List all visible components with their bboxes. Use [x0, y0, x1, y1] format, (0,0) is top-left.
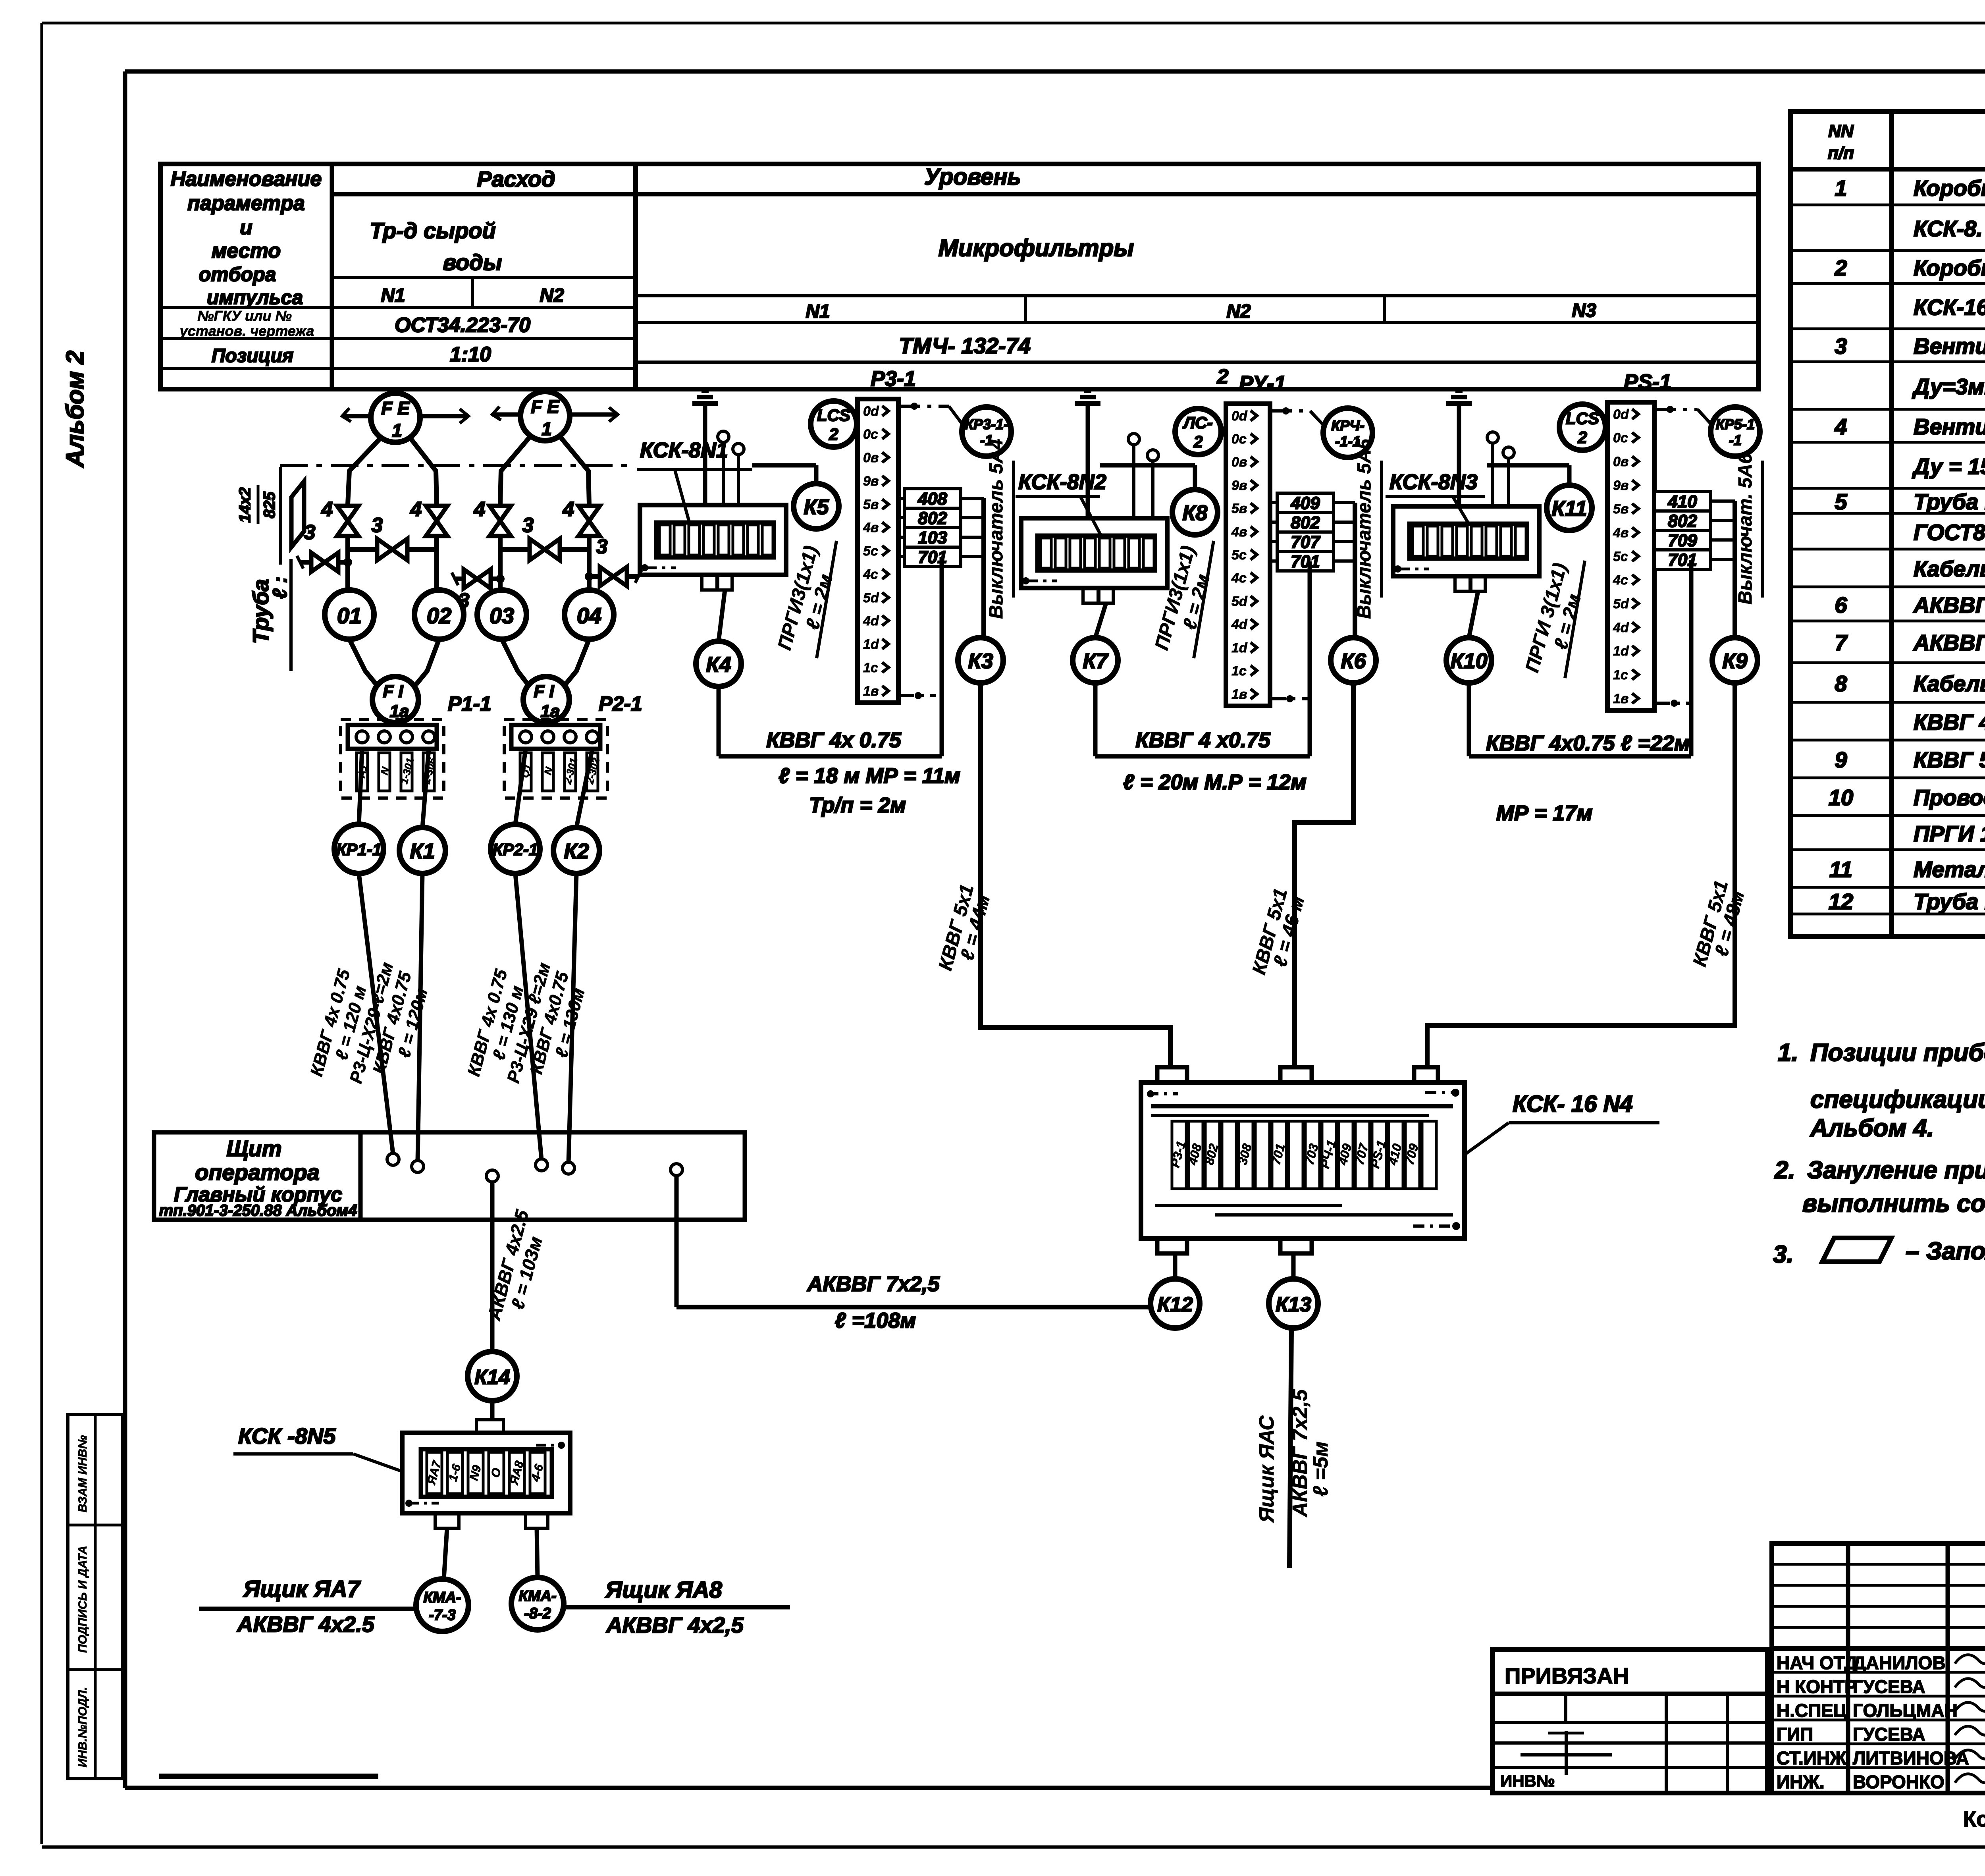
- svg-text:5d: 5d: [863, 590, 879, 605]
- svg-text:2: 2: [1193, 432, 1203, 451]
- vertical album label: Альбом 2: [62, 351, 89, 468]
- svg-text:Кабель контрольный ГОСТ1508-78: Кабель контрольный ГОСТ1508-78Е: [1914, 556, 1985, 581]
- junction box KSK-8 N3: [1393, 506, 1539, 591]
- svg-text:К1: К1: [410, 839, 435, 863]
- circle К9: [1712, 638, 1758, 683]
- svg-text:ИНЖ.: ИНЖ.: [1777, 1772, 1825, 1792]
- svg-text:Коробка соединительная: Коробка соединительная: [1914, 255, 1985, 280]
- svg-text:1: 1: [392, 420, 402, 441]
- room boundary dash-dot line: [280, 464, 635, 467]
- svg-text:и: и: [240, 216, 252, 239]
- left stamp column (inv/podpis/vzam): [68, 1415, 123, 1779]
- svg-text:АКВВГ 4х2.5: АКВВГ 4х2.5: [236, 1612, 375, 1637]
- relay circle КР5-1-1: [1711, 407, 1760, 456]
- notes text: [1773, 1039, 1985, 1268]
- wire to К11: [1487, 465, 1569, 485]
- svg-text:4d: 4d: [1613, 620, 1629, 635]
- svg-text:Вентиль запорный муфтовый: Вентиль запорный муфтовый: [1914, 334, 1985, 359]
- impulse pipes from FE2: [500, 437, 589, 504]
- specification table frame: [1790, 112, 1985, 937]
- svg-text:LCS: LCS: [817, 406, 850, 424]
- svg-text:ГОСТ8734-75 /ГОСТ 8733-74: ГОСТ8734-75 /ГОСТ 8733-74: [1914, 520, 1985, 545]
- kopiroval line: [1963, 1806, 1985, 1831]
- svg-text:АКВВГ 7х2,5: АКВВГ 7х2,5: [806, 1272, 940, 1296]
- svg-text:К8: К8: [1182, 501, 1207, 525]
- circle KMA-7-3: [416, 1579, 468, 1631]
- cable gland pins unit 3: [1487, 432, 1514, 506]
- svg-text:АКВВГ 7х2,5: АКВВГ 7х2,5: [1289, 1389, 1312, 1517]
- pipe size fraction 14х2/825: [236, 485, 278, 524]
- svg-text:Расход: Расход: [477, 166, 555, 191]
- pipe spec parallelogram: [291, 481, 304, 547]
- junction box KSK-8 N1: [640, 505, 786, 590]
- circle К5: [794, 484, 839, 529]
- svg-text:ГИП: ГИП: [1777, 1724, 1813, 1745]
- svg-text:01: 01: [337, 603, 362, 628]
- specification table rows text: [1829, 175, 1985, 914]
- svg-text:Альбом 4.: Альбом 4.: [1810, 1114, 1934, 1142]
- valve 4 on pipe 1: [321, 498, 358, 536]
- svg-text:Ящик ЯА7: Ящик ЯА7: [243, 1576, 361, 1602]
- svg-text:0в: 0в: [863, 450, 879, 465]
- svg-text:1d: 1d: [1613, 644, 1629, 659]
- truba label: [248, 467, 291, 671]
- svg-text:ВОРОНКО: ВОРОНКО: [1853, 1772, 1945, 1792]
- svg-text:Провод гибкий с медной жилой: Провод гибкий с медной жилой: [1914, 785, 1985, 810]
- relay label Р3-1: [871, 367, 916, 391]
- local switch circle ЛС- unit 2: [1175, 409, 1221, 455]
- svg-text:802: 802: [1668, 511, 1697, 531]
- bottom dash-dot unit 1: [898, 692, 936, 699]
- svg-text:03: 03: [490, 603, 514, 628]
- svg-text:F E: F E: [531, 396, 560, 417]
- svg-text:9в: 9в: [863, 474, 879, 489]
- title block frame: [1772, 1544, 1985, 1793]
- svg-text:Ду = 15мм, 15ч8П2: Ду = 15мм, 15ч8П2: [1912, 454, 1985, 479]
- local switch circle LCS unit 1: [811, 401, 857, 447]
- label KSK-16 N4: [1466, 1091, 1659, 1154]
- svg-text:К6: К6: [1341, 649, 1366, 673]
- instrument circle 01: [325, 536, 374, 639]
- svg-text:0d: 0d: [1613, 407, 1629, 422]
- label KSK-8 N3: [1386, 470, 1485, 524]
- wire to К8: [1100, 465, 1195, 490]
- svg-text:1.: 1.: [1778, 1039, 1798, 1066]
- svg-text:КСК-8N3: КСК-8N3: [1389, 470, 1478, 494]
- dash-dot wire relay to KR unit 3: [1654, 406, 1711, 424]
- bus to К9: [1733, 501, 1737, 638]
- svg-text:ℓ :: ℓ :: [269, 576, 291, 599]
- svg-text:К3: К3: [968, 649, 993, 673]
- privyazan table: [1492, 1650, 1767, 1793]
- wire K13 down to yashik YAS: [1255, 1328, 1332, 1568]
- svg-text:1:10: 1:10: [450, 343, 491, 366]
- svg-text:СТ.ИНЖ: СТ.ИНЖ: [1777, 1748, 1846, 1768]
- yashik YA8 label: [564, 1577, 790, 1637]
- svg-text:5c: 5c: [1231, 548, 1247, 563]
- svg-text:К13: К13: [1276, 1293, 1311, 1316]
- circle К1: [399, 827, 445, 873]
- svg-text:ПОДПИСЬ И ДАТА: ПОДПИСЬ И ДАТА: [76, 1546, 89, 1653]
- circle КР1-1: [334, 824, 384, 873]
- panel terminals: [387, 1153, 682, 1182]
- svg-text:4: 4: [563, 498, 574, 521]
- svg-text:п/п: п/п: [1828, 143, 1854, 163]
- svg-text:ИНВ.№ПОДЛ.: ИНВ.№ПОДЛ.: [76, 1687, 89, 1768]
- svg-text:2: 2: [1834, 255, 1847, 280]
- svg-text:КВВГ 4х0.75 ℓ =22м: КВВГ 4х0.75 ℓ =22м: [1486, 731, 1690, 755]
- svg-text:КСК-8N1: КСК-8N1: [640, 438, 728, 462]
- svg-text:АКВВГ 4х2,5: АКВВГ 4х2,5: [605, 1612, 744, 1637]
- svg-text:0в: 0в: [1231, 455, 1247, 470]
- svg-text:1: 1: [1835, 175, 1847, 201]
- svg-text:ГУСЕВА: ГУСЕВА: [1853, 1676, 1925, 1697]
- svg-text:4: 4: [321, 498, 333, 521]
- svg-text:3: 3: [522, 514, 534, 537]
- svg-text:КВВГ 4х0.75 кв.мм: КВВГ 4х0.75 кв.мм: [1914, 710, 1985, 735]
- switch label unit 3: [1735, 453, 1763, 604]
- svg-text:КР5-1: КР5-1: [1716, 416, 1755, 432]
- svg-text:2: 2: [1577, 428, 1587, 447]
- label KSK-8 N1: [637, 438, 752, 523]
- wire number cells unit 2: [1270, 493, 1355, 571]
- svg-text:Вентиль Запорный муфтовый: Вентиль Запорный муфтовый: [1914, 414, 1985, 439]
- cable gland pins unit 1: [718, 431, 744, 505]
- svg-text:ГУСЕВА: ГУСЕВА: [1853, 1724, 1925, 1745]
- cable gland pins unit 2: [1128, 434, 1158, 518]
- svg-text:Труба водогазопроводная: Труба водогазопроводная: [1914, 489, 1985, 514]
- svg-text:установ. чертежа: установ. чертежа: [179, 323, 314, 339]
- circle K13: [1269, 1253, 1318, 1328]
- ground symbol unit 1: [692, 391, 718, 505]
- svg-text:КСК-8N2: КСК-8N2: [1018, 470, 1106, 494]
- svg-text:Н.СПЕЦ: Н.СПЕЦ: [1777, 1700, 1847, 1721]
- terminal strip P2-1: [504, 719, 607, 798]
- riser into box middle: [1292, 823, 1297, 1067]
- svg-text:Выключат. 5А6: Выключат. 5А6: [1735, 453, 1756, 604]
- cable route К7 to relay unit 2: [1095, 561, 1310, 756]
- svg-text:Р3-1: Р3-1: [871, 367, 916, 391]
- svg-text:– Заполняется при привязке: – Заполняется при привязке проекта: [1906, 1238, 1985, 1265]
- svg-text:ОСТ34.223-70: ОСТ34.223-70: [395, 314, 530, 337]
- svg-text:К7: К7: [1083, 649, 1109, 673]
- svg-text:4в: 4в: [863, 520, 879, 535]
- dash-dot wire relay to KR unit 1: [898, 403, 962, 424]
- svg-text:Ящик ЯА8: Ящик ЯА8: [605, 1577, 723, 1603]
- svg-text:N1: N1: [806, 301, 830, 322]
- svg-text:1в: 1в: [1231, 687, 1247, 702]
- local switch circle LCS unit 3: [1559, 404, 1605, 450]
- svg-text:-1: -1: [1729, 432, 1742, 448]
- svg-text:№ГКУ или №: №ГКУ или №: [197, 308, 292, 324]
- svg-text:Выключатель 5А4: Выключатель 5А4: [986, 439, 1007, 619]
- flow element FE2: [492, 391, 618, 441]
- wire number cells unit 3: [1654, 492, 1735, 570]
- svg-text:707: 707: [1291, 532, 1321, 552]
- svg-text:Альбом 2: Альбом 2: [62, 351, 89, 468]
- svg-text:Щит: Щит: [226, 1136, 281, 1161]
- svg-text:КСК-16. ТУ36. 1753: КСК-16. ТУ36. 1753: [1914, 295, 1985, 320]
- circle К3: [958, 638, 1003, 683]
- svg-text:4d: 4d: [863, 613, 879, 629]
- svg-text:Н КОНТР: Н КОНТР: [1777, 1676, 1857, 1697]
- svg-text:0c: 0c: [1231, 432, 1247, 447]
- svg-text:выполнить согласно ПУЗ-85р: выполнить согласно ПУЗ-85р 1-7- 4Б.: [1802, 1190, 1985, 1217]
- svg-text:КСК-8. ТУ36. 1753: КСК-8. ТУ36. 1753: [1914, 216, 1985, 241]
- bottom dash-dot unit 2: [1270, 695, 1308, 702]
- circle К4: [696, 590, 741, 686]
- svg-text:КВВГ 4 х0.75: КВВГ 4 х0.75: [1135, 728, 1270, 752]
- parameter header table: [160, 164, 1758, 389]
- circle KMA-8-2: [511, 1577, 564, 1630]
- svg-text:К14: К14: [474, 1366, 510, 1389]
- svg-text:КСК -8N5: КСК -8N5: [238, 1423, 336, 1448]
- svg-text:КМА-: КМА-: [518, 1588, 556, 1604]
- long cable К9 to KSK-16: [1427, 685, 1735, 1068]
- circle K12: [1151, 1253, 1200, 1328]
- svg-text:ТМЧ- 132-74: ТМЧ- 132-74: [899, 333, 1031, 358]
- PRGI3 label unit 3: [1522, 561, 1585, 678]
- instrument circle 03: [477, 536, 526, 639]
- switch label unit 2: [1354, 438, 1382, 619]
- circle К10: [1446, 591, 1492, 683]
- svg-text:К4: К4: [706, 653, 731, 677]
- relay circle КРЧ--1-1: [1323, 408, 1372, 457]
- stub FI1 to strip: [393, 723, 398, 725]
- svg-text:02: 02: [427, 603, 451, 628]
- valve 4 on pipe 4: [563, 498, 600, 536]
- svg-text:F I: F I: [383, 682, 403, 701]
- svg-text:4: 4: [1834, 414, 1847, 439]
- junction box KSK-8 N2: [1021, 518, 1167, 603]
- svg-text:ГОЛЬЦМАН: ГОЛЬЦМАН: [1853, 1700, 1958, 1721]
- svg-text:1c: 1c: [1231, 663, 1247, 679]
- flow indicator FI2: [502, 639, 642, 723]
- svg-text:802: 802: [918, 509, 947, 528]
- circle К11: [1547, 485, 1592, 530]
- circle К6: [1331, 638, 1376, 683]
- svg-text:-7-3: -7-3: [429, 1607, 456, 1623]
- svg-text:КСК- 16 N4: КСК- 16 N4: [1513, 1091, 1633, 1117]
- switch label unit 1: [986, 439, 1014, 619]
- svg-text:3.: 3.: [1773, 1241, 1794, 1268]
- svg-text:1в: 1в: [863, 684, 879, 699]
- relay label РУ-1: [1239, 372, 1286, 395]
- svg-text:1c: 1c: [863, 660, 878, 675]
- wire to К5: [752, 465, 816, 484]
- svg-text:Р1-1: Р1-1: [448, 692, 491, 715]
- riser into box from left bus: [1168, 1028, 1173, 1067]
- svg-text:-8-2: -8-2: [524, 1605, 551, 1622]
- cable labels group 2: [464, 961, 589, 1085]
- svg-text:3: 3: [372, 514, 383, 537]
- svg-text:КРЧ-: КРЧ-: [1331, 417, 1364, 434]
- long cable К3 to KSK-16: [981, 683, 1170, 1068]
- svg-text:Ящик ЯАС: Ящик ЯАС: [1255, 1415, 1278, 1523]
- svg-text:N3: N3: [1572, 300, 1596, 321]
- svg-text:Труба полиэтиленовая 40х3: Труба полиэтиленовая 40х3: [1914, 889, 1985, 914]
- bus to К3: [981, 498, 986, 638]
- ground symbol unit 2: [1075, 391, 1100, 518]
- svg-text:Позиция: Позиция: [212, 345, 293, 366]
- svg-text:Кабель контрольный с медной жи: Кабель контрольный с медной жилой: [1914, 671, 1985, 696]
- svg-text:N1: N1: [381, 285, 405, 306]
- svg-text:ДАНИЛОВ: ДАНИЛОВ: [1853, 1652, 1946, 1673]
- svg-text:F E: F E: [381, 398, 410, 418]
- cable label KVVG 5x1 unit 1: [935, 882, 994, 973]
- svg-text:импульса: импульса: [207, 286, 303, 308]
- svg-text:тп.901-3-250.88 Альбом4: тп.901-3-250.88 Альбом4: [159, 1202, 357, 1219]
- svg-text:НАЧ ОТД: НАЧ ОТД: [1777, 1652, 1858, 1673]
- flow element FE1: [342, 393, 468, 442]
- svg-text:04: 04: [577, 603, 601, 628]
- svg-text:1d: 1d: [863, 637, 879, 652]
- cable route К10 to relay unit 3: [1469, 560, 1691, 756]
- svg-text:АКВВГ 7х2.5 кв. мм: АКВВГ 7х2.5 кв. мм: [1913, 630, 1985, 655]
- svg-text:9в: 9в: [1231, 478, 1247, 493]
- circle КР2-1: [491, 824, 540, 873]
- circle К7: [1073, 603, 1118, 683]
- valve 4 on pipe 3: [474, 498, 511, 536]
- svg-text:NN: NN: [1828, 121, 1854, 141]
- svg-text:К11: К11: [1551, 497, 1587, 521]
- label KSK-8 N5: [233, 1423, 402, 1471]
- svg-text:отбора: отбора: [199, 263, 276, 285]
- wire K14 to KSK-8 N5: [490, 1401, 495, 1420]
- svg-text:5в: 5в: [1231, 501, 1247, 516]
- svg-text:4d: 4d: [1231, 617, 1248, 632]
- svg-text:4: 4: [474, 498, 486, 521]
- svg-text:Уровень: Уровень: [924, 164, 1021, 190]
- title block signature rows: [1777, 1652, 1985, 1792]
- svg-text:Позиции приборов соответству: Позиции приборов соответствуют: [1810, 1039, 1985, 1066]
- cable label KVVG 5x1 unit 2: [1249, 886, 1309, 977]
- svg-text:4c: 4c: [863, 567, 878, 582]
- wire K14 drop: [483, 1182, 546, 1352]
- svg-text:К9: К9: [1722, 649, 1747, 673]
- svg-text:К12: К12: [1157, 1293, 1193, 1316]
- right line with valve 3: [585, 535, 642, 586]
- svg-text:РS-1: РS-1: [1624, 370, 1671, 394]
- svg-text:2: 2: [829, 425, 838, 443]
- svg-text:1c: 1c: [1613, 667, 1628, 683]
- svg-text:825: 825: [261, 492, 278, 518]
- wire number cells unit 1: [898, 489, 984, 567]
- svg-text:N2: N2: [540, 285, 564, 306]
- svg-text:1d: 1d: [1231, 640, 1248, 656]
- svg-text:5d: 5d: [1613, 596, 1629, 611]
- wires to KMA circles: [444, 1528, 538, 1579]
- svg-text:4в: 4в: [1613, 525, 1628, 540]
- svg-text:9: 9: [1835, 747, 1847, 772]
- svg-text:параметра: параметра: [187, 192, 305, 215]
- svg-text:воды: воды: [443, 250, 502, 275]
- specification table header: [1828, 121, 1985, 163]
- svg-text:Микрофильтры: Микрофильтры: [939, 235, 1134, 261]
- svg-text:ℓ =108м: ℓ =108м: [835, 1309, 916, 1332]
- svg-text:0c: 0c: [1613, 430, 1628, 445]
- relay box РS-1: [1607, 402, 1654, 710]
- mid line with valve 3: [452, 569, 505, 612]
- svg-text:5: 5: [1835, 489, 1847, 514]
- bottom-left scan bar: [159, 1774, 378, 1779]
- svg-text:ЛИТВИНОВА: ЛИТВИНОВА: [1853, 1748, 1969, 1768]
- svg-text:10: 10: [1829, 785, 1853, 810]
- svg-text:оператора: оператора: [195, 1160, 320, 1185]
- svg-text:410: 410: [1667, 492, 1697, 511]
- cable label KVVG 5x1 unit 3: [1689, 878, 1749, 969]
- svg-text:Тр/п = 2м: Тр/п = 2м: [809, 793, 906, 817]
- svg-text:0в: 0в: [1613, 454, 1628, 469]
- cable label unit 1: [766, 728, 960, 817]
- svg-text:К2: К2: [564, 839, 589, 863]
- svg-text:спецификации оборудования: спецификации оборудования АТХ.СО.: [1810, 1086, 1985, 1113]
- relay box Р3-1: [858, 399, 898, 703]
- svg-text:ВЗАМ ИНВ№: ВЗАМ ИНВ№: [76, 1435, 89, 1512]
- svg-text:11: 11: [1829, 857, 1852, 882]
- cable labels group 1: [307, 960, 432, 1085]
- svg-text:0d: 0d: [1231, 409, 1248, 424]
- instrument circle 04: [565, 536, 614, 639]
- long cable К6 to KSK-16: [1295, 683, 1353, 1068]
- svg-text:РУ-1: РУ-1: [1239, 372, 1286, 395]
- svg-text:КР2-1: КР2-1: [493, 840, 538, 859]
- svg-text:408: 408: [917, 489, 947, 509]
- svg-text:14х2: 14х2: [236, 488, 254, 523]
- valve 4 on pipe 2: [410, 498, 447, 536]
- svg-text:409: 409: [1290, 494, 1320, 513]
- ground symbol unit 3: [1446, 391, 1472, 506]
- terminal strip P1-1: [341, 719, 444, 798]
- svg-text:2: 2: [1217, 365, 1229, 388]
- svg-text:802: 802: [1291, 513, 1320, 532]
- relay box РУ-1: [1226, 404, 1270, 706]
- svg-text:4: 4: [410, 498, 422, 521]
- svg-text:АКВВГ 4х2.5 кв. мм: АКВВГ 4х2.5 кв. мм: [1913, 592, 1985, 617]
- svg-text:3: 3: [596, 535, 608, 558]
- svg-text:ℓ = 18 м МР = 11м: ℓ = 18 м МР = 11м: [779, 764, 960, 788]
- svg-text:К10: К10: [1450, 649, 1487, 673]
- svg-text:место: место: [212, 239, 281, 262]
- svg-text:5в: 5в: [1613, 501, 1628, 517]
- relay circle КР3-1--1: [962, 407, 1011, 456]
- riser into box right: [1425, 1026, 1430, 1067]
- label KSK-8 N2: [1016, 470, 1106, 536]
- cable label unit 2: [1123, 728, 1307, 794]
- svg-text:КР1-1: КР1-1: [336, 840, 382, 859]
- svg-text:Р2-1: Р2-1: [599, 692, 642, 715]
- svg-text:6: 6: [1835, 592, 1847, 617]
- svg-text:LCS: LCS: [1566, 409, 1599, 428]
- svg-text:4в: 4в: [1231, 524, 1247, 540]
- svg-text:МР = 17м: МР = 17м: [1496, 801, 1593, 825]
- svg-text:4c: 4c: [1231, 571, 1247, 586]
- svg-text:0c: 0c: [863, 427, 878, 442]
- svg-text:ИНВ№: ИНВ№: [1500, 1772, 1555, 1790]
- svg-text:ЛС-: ЛС-: [1182, 413, 1212, 432]
- svg-text:N2: N2: [1226, 301, 1251, 322]
- instrument circle 02: [414, 536, 464, 639]
- svg-text:ℓ = 20м М.Р = 12м: ℓ = 20м М.Р = 12м: [1123, 770, 1307, 794]
- svg-text:12: 12: [1829, 889, 1853, 914]
- svg-text:ПРИВЯЗАН: ПРИВЯЗАН: [1505, 1663, 1629, 1688]
- svg-text:К5: К5: [804, 495, 829, 519]
- parameter table texts: [171, 164, 1596, 388]
- svg-text:Наименование: Наименование: [171, 168, 322, 191]
- svg-text:709: 709: [1668, 531, 1697, 550]
- svg-text:Зануление приборов, соедините: Зануление приборов, соединительных короб…: [1807, 1157, 1985, 1184]
- svg-text:701: 701: [1291, 552, 1320, 571]
